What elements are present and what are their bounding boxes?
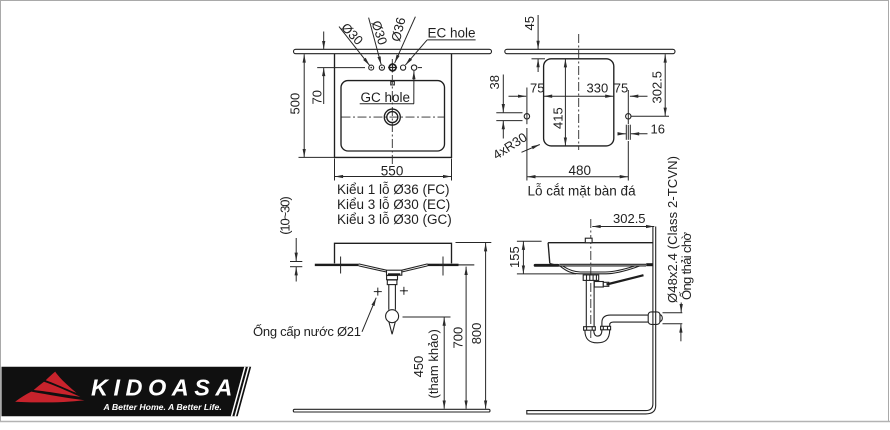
svg-text:Kiểu 3 lỗ Ø30 (EC): Kiểu 3 lỗ Ø30 (EC) [337, 197, 450, 212]
svg-text:4xR30: 4xR30 [490, 129, 530, 162]
svg-text:450: 450 [411, 356, 426, 378]
svg-text:Lỗ cắt mặt bàn đá: Lỗ cắt mặt bàn đá [528, 183, 637, 198]
svg-text:KIDOASA: KIDOASA [91, 375, 238, 401]
svg-text:700: 700 [451, 327, 466, 349]
svg-text:Kiểu 3 lỗ Ø30 (GC): Kiểu 3 lỗ Ø30 (GC) [337, 212, 452, 227]
svg-text:70: 70 [309, 90, 324, 104]
svg-text:Ø30: Ø30 [369, 19, 391, 47]
svg-text:Kiểu 1 lỗ Ø36 (FC): Kiểu 1 lỗ Ø36 (FC) [337, 182, 450, 197]
svg-text:415: 415 [551, 107, 566, 129]
svg-text:480: 480 [569, 163, 592, 178]
svg-text:45: 45 [522, 16, 537, 30]
svg-text:800: 800 [469, 323, 484, 345]
svg-text:75: 75 [614, 81, 628, 96]
svg-text:16: 16 [651, 122, 665, 137]
svg-text:500: 500 [288, 93, 303, 115]
svg-text:A Better Home. A Better Life.: A Better Home. A Better Life. [103, 402, 222, 412]
svg-text:155: 155 [507, 246, 522, 268]
svg-text:(tham khảo): (tham khảo) [426, 329, 441, 398]
svg-text:Ống thải chờ: Ống thải chờ [679, 232, 694, 300]
svg-text:(10~30): (10~30) [277, 196, 292, 235]
svg-text:302.5: 302.5 [650, 71, 665, 104]
svg-text:Ø48x2.4 (Class 2-TCVN): Ø48x2.4 (Class 2-TCVN) [665, 156, 680, 303]
svg-text:Ống cấp nước Ø21: Ống cấp nước Ø21 [253, 324, 361, 339]
svg-text:EC hole: EC hole [428, 26, 476, 41]
svg-text:330: 330 [587, 81, 609, 96]
svg-text:38: 38 [487, 75, 502, 89]
svg-text:302.5: 302.5 [613, 211, 646, 226]
svg-text:75: 75 [530, 81, 544, 96]
svg-text:GC hole: GC hole [361, 90, 411, 105]
svg-text:550: 550 [381, 164, 404, 179]
